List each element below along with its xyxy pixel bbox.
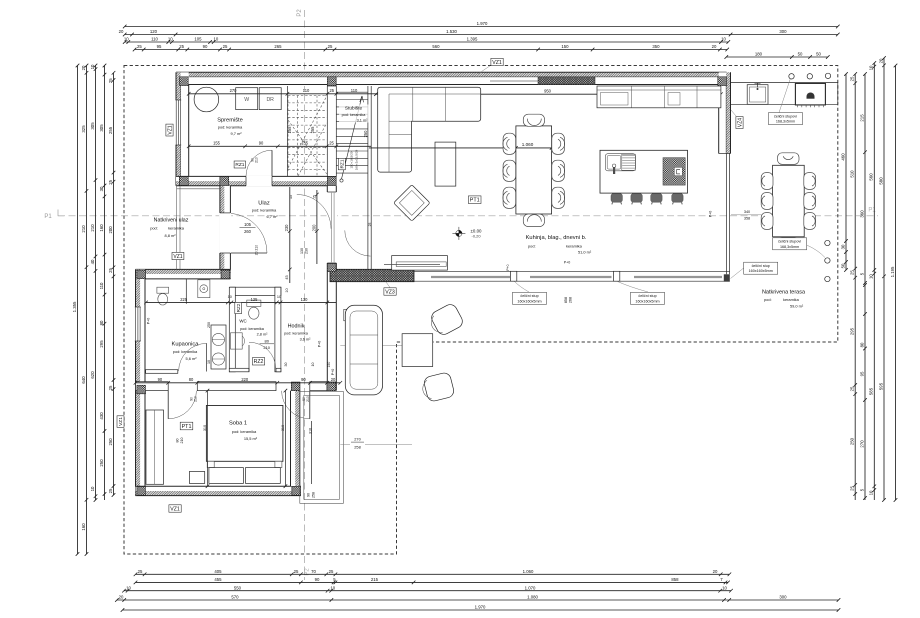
svg-text:168,3x5mm: 168,3x5mm bbox=[780, 245, 799, 249]
kitchen wall cabinets bbox=[597, 86, 721, 108]
svg-text:RZ1: RZ1 bbox=[235, 162, 244, 168]
axis P1 (horizontal centreline) bbox=[58, 215, 878, 217]
outdoor lounge chair 2 bbox=[420, 372, 455, 404]
svg-text:950: 950 bbox=[544, 89, 552, 94]
svg-text:210: 210 bbox=[255, 157, 259, 163]
svg-text:Hodnik: Hodnik bbox=[288, 324, 305, 330]
wall W5 north wall of bedroom block (y269-279) bbox=[136, 269, 231, 279]
top dimension chain 20/120/1.530/300 bbox=[123, 33, 840, 37]
right dimension chain 20/580/595 bbox=[882, 56, 886, 502]
svg-text:110: 110 bbox=[151, 37, 158, 42]
svg-text:295: 295 bbox=[99, 340, 104, 348]
sliding glass panels (grey bars) bbox=[431, 276, 722, 278]
svg-text:20: 20 bbox=[878, 58, 883, 63]
svg-text:570: 570 bbox=[231, 595, 239, 600]
svg-text:230: 230 bbox=[284, 224, 289, 232]
svg-text:455: 455 bbox=[214, 577, 222, 582]
columns overlay bbox=[179, 77, 188, 86]
roof overhang dashed outline bbox=[124, 66, 838, 555]
svg-text:620: 620 bbox=[90, 371, 95, 379]
WC door leaf and arc bbox=[248, 345, 250, 372]
column bedroom SE corner bbox=[292, 487, 301, 496]
bottom dimension chain total 1.970 bbox=[121, 608, 841, 612]
WC toilet bbox=[247, 300, 261, 306]
svg-text:200: 200 bbox=[108, 226, 113, 234]
svg-text:80: 80 bbox=[176, 439, 180, 443]
bedroom bed bbox=[206, 406, 283, 462]
svg-text:265: 265 bbox=[274, 44, 282, 49]
svg-text:10: 10 bbox=[311, 363, 315, 367]
svg-text:585: 585 bbox=[869, 387, 874, 395]
wall W9 bedroom north wall (y382-391) bbox=[136, 382, 332, 391]
svg-text:10: 10 bbox=[124, 37, 129, 42]
label RZ1 at storage door bbox=[234, 161, 246, 168]
svg-text:210: 210 bbox=[81, 225, 86, 233]
svg-text:30: 30 bbox=[99, 186, 104, 191]
bedroom door leaf and arc bbox=[167, 391, 169, 419]
svg-text:250: 250 bbox=[850, 437, 855, 445]
column junction Ulaz west wall bbox=[221, 270, 230, 279]
bathroom partition line x186.3 bbox=[185, 279, 187, 304]
svg-text:120: 120 bbox=[150, 29, 158, 34]
svg-text:1.070: 1.070 bbox=[525, 585, 536, 590]
svg-text:858: 858 bbox=[564, 297, 568, 303]
axis P2 (vertical centreline) bbox=[304, 10, 306, 580]
svg-text:51,0 m²: 51,0 m² bbox=[578, 249, 592, 254]
svg-text:Natkriveni ulaz: Natkriveni ulaz bbox=[154, 218, 189, 224]
svg-text:P+0: P+0 bbox=[331, 369, 335, 376]
terrace step slab SE of bedroom bbox=[300, 392, 344, 504]
right dimension chain 460/30/50 bbox=[844, 72, 848, 272]
svg-text:10: 10 bbox=[207, 360, 211, 364]
svg-text:keramika: keramika bbox=[168, 226, 185, 231]
svg-text:150: 150 bbox=[327, 362, 331, 368]
svg-text:340: 340 bbox=[744, 210, 750, 214]
stair left boundary line x287.4 bbox=[286, 86, 288, 176]
armchair rotated 45deg bbox=[394, 185, 430, 221]
bathroom boiler/washer bbox=[198, 280, 210, 298]
svg-text:110: 110 bbox=[303, 88, 310, 93]
svg-text:250: 250 bbox=[207, 322, 211, 328]
WC small sink bbox=[231, 333, 243, 349]
dining dim line 1.060 over table bbox=[369, 146, 553, 150]
island bar stools (dark) bbox=[611, 194, 622, 205]
dining chair top bbox=[523, 114, 544, 126]
storage dryer box DR bbox=[259, 88, 281, 110]
svg-text:405: 405 bbox=[214, 569, 222, 574]
svg-text:90: 90 bbox=[301, 377, 306, 382]
bathroom south wall stub bbox=[146, 370, 178, 374]
svg-text:pod:: pod: bbox=[528, 243, 536, 248]
svg-text:45: 45 bbox=[285, 275, 289, 279]
svg-text:95: 95 bbox=[157, 44, 162, 49]
svg-text:225: 225 bbox=[180, 297, 188, 302]
label RZ2 boxed bbox=[252, 358, 264, 366]
svg-text:10: 10 bbox=[168, 37, 173, 42]
svg-text:510: 510 bbox=[850, 170, 855, 178]
island sink with drainboard bbox=[605, 154, 635, 171]
svg-text:1.195: 1.195 bbox=[890, 266, 895, 277]
svg-text:10: 10 bbox=[228, 295, 232, 299]
stair walking line with arrow bbox=[340, 179, 343, 182]
svg-text:580: 580 bbox=[878, 177, 883, 185]
label VZ1 top boxed bbox=[491, 58, 503, 66]
svg-text:10: 10 bbox=[869, 65, 874, 70]
label VZ1 south bedroom bbox=[169, 505, 181, 513]
leader 270/258 east of bedroom wall bbox=[340, 443, 412, 445]
svg-text:čelični stup: čelični stup bbox=[520, 294, 538, 298]
svg-text:P2: P2 bbox=[297, 9, 303, 17]
svg-text:10: 10 bbox=[722, 585, 727, 590]
svg-text:105: 105 bbox=[244, 222, 252, 227]
svg-text:25: 25 bbox=[850, 386, 855, 391]
svg-text:-135: -135 bbox=[300, 141, 309, 146]
svg-text:130: 130 bbox=[301, 297, 309, 302]
svg-text:110: 110 bbox=[99, 282, 104, 289]
door opening storage south wall bbox=[246, 176, 272, 187]
terrace chairs left bbox=[761, 173, 773, 190]
svg-text:P1: P1 bbox=[868, 208, 876, 214]
svg-text:P1: P1 bbox=[44, 214, 52, 220]
left dimension chain 20/325/210/640/160 bbox=[85, 64, 89, 556]
column storage south wall east (x327) bbox=[327, 177, 336, 186]
svg-text:10: 10 bbox=[330, 585, 335, 590]
column hodnik SE bbox=[327, 382, 336, 391]
svg-text:20: 20 bbox=[81, 65, 86, 70]
bottom dimension chain 25/405/25/70/25/1.060/20 bbox=[134, 573, 732, 577]
svg-text:25: 25 bbox=[850, 270, 855, 275]
svg-text:čelični stupovi: čelični stupovi bbox=[774, 114, 797, 118]
svg-text:pod:: pod: bbox=[150, 226, 158, 231]
window in bathroom west wall bbox=[135, 307, 142, 341]
right dimension chain 25/510/25/295/25/250/25 bbox=[853, 72, 857, 500]
svg-text:150: 150 bbox=[561, 44, 569, 49]
wall W6 west wall of bedroom block (x135-145) bbox=[136, 269, 146, 495]
terrace chair bottom bbox=[778, 238, 800, 250]
wall VZ3 hatched south wall segment (x330-414) bbox=[330, 269, 414, 281]
svg-text:P+0: P+0 bbox=[709, 211, 713, 218]
covered entrance slab edge lines bbox=[177, 186, 220, 270]
svg-text:25: 25 bbox=[329, 141, 334, 146]
WC east wall (x275-281) bbox=[275, 287, 281, 372]
svg-text:čelični stup: čelični stup bbox=[638, 294, 656, 298]
label VZ1 covered entrance bbox=[172, 252, 184, 259]
svg-text:1.530: 1.530 bbox=[446, 29, 457, 34]
bathroom door leaf and arc bbox=[177, 371, 179, 374]
door swing arc Ulaz-living door A bbox=[297, 195, 331, 229]
svg-text:2,8 m²: 2,8 m² bbox=[257, 332, 268, 336]
wall east wall of living room hatched part (x719-730) bbox=[719, 72, 731, 153]
svg-text:10: 10 bbox=[126, 585, 131, 590]
svg-text:P+0: P+0 bbox=[506, 264, 510, 270]
right dimension chain total 1.195 bbox=[894, 64, 898, 502]
svg-text:P+0: P+0 bbox=[147, 318, 151, 325]
staircase upper flight solid treads bbox=[336, 92, 368, 173]
svg-text:Kuhinja, blag., dnevni b.: Kuhinja, blag., dnevni b. bbox=[526, 235, 587, 241]
svg-text:25: 25 bbox=[294, 569, 299, 574]
svg-text:90: 90 bbox=[307, 493, 311, 497]
steel column label SE corner with leader bbox=[731, 268, 744, 279]
bedroom wardrobe bbox=[146, 410, 164, 484]
column south glazing x616 bbox=[613, 271, 619, 281]
svg-text:25: 25 bbox=[328, 44, 333, 49]
svg-text:20: 20 bbox=[713, 569, 718, 574]
svg-text:300: 300 bbox=[779, 595, 787, 600]
label RZ1 rotated at stair bbox=[338, 158, 345, 170]
svg-text:pod:: pod: bbox=[764, 297, 772, 302]
svg-text:210: 210 bbox=[194, 396, 198, 402]
svg-text:pod: keramika: pod: keramika bbox=[218, 125, 243, 130]
right dimension chain 10/560/10/585/10 bbox=[873, 61, 877, 500]
bathroom toilet bbox=[157, 287, 169, 293]
TV sideboard at south glazing bbox=[392, 256, 448, 271]
column living room SE corner bbox=[724, 274, 730, 281]
storage washer box W bbox=[236, 88, 258, 110]
svg-text:20 210: 20 210 bbox=[255, 245, 259, 255]
svg-text:25: 25 bbox=[108, 268, 113, 273]
svg-text:RZ2: RZ2 bbox=[236, 303, 241, 312]
bathroom vanity with two basins bbox=[211, 325, 226, 369]
svg-text:300: 300 bbox=[779, 29, 787, 34]
top dimension chain 25/95/25/90/25/265/25/560/150/350/20 bbox=[133, 48, 729, 52]
svg-text:1.080: 1.080 bbox=[527, 595, 538, 600]
svg-text:10: 10 bbox=[869, 490, 874, 495]
svg-text:20: 20 bbox=[119, 29, 124, 34]
dining chairs left column bbox=[503, 133, 516, 154]
svg-text:110+16,5/29: 110+16,5/29 bbox=[350, 151, 354, 168]
svg-text:keramika: keramika bbox=[783, 297, 800, 302]
svg-text:858: 858 bbox=[671, 577, 679, 582]
wall W2 west wall of storage room (x176-189) bbox=[176, 72, 189, 185]
stair middle wall (x327-336) bbox=[327, 86, 336, 176]
terrace chairs right bbox=[804, 173, 816, 190]
svg-text:10: 10 bbox=[869, 274, 874, 279]
left dimension chain total 1.355 bbox=[76, 64, 80, 556]
svg-text:305: 305 bbox=[99, 124, 104, 132]
west glazing of living room (x367-371) bbox=[368, 86, 371, 269]
svg-text:-0,20: -0,20 bbox=[472, 234, 482, 239]
bathroom dim line 225/10/125/10/130 bbox=[144, 301, 336, 305]
svg-text:RZ1: RZ1 bbox=[340, 159, 346, 168]
svg-text:25: 25 bbox=[330, 88, 335, 93]
terrace chair top bbox=[778, 153, 800, 165]
kitchen dim line 950 bbox=[374, 92, 723, 96]
svg-text:230: 230 bbox=[305, 248, 309, 254]
column NE corner bbox=[718, 77, 727, 86]
svg-text:40: 40 bbox=[90, 259, 95, 264]
svg-text:pod: keramika: pod: keramika bbox=[173, 349, 198, 354]
svg-text:25: 25 bbox=[108, 78, 113, 83]
top dimension chain total 1.970 bbox=[123, 25, 840, 29]
column hodnik east wall (y264) bbox=[327, 264, 336, 272]
svg-text:250: 250 bbox=[108, 438, 113, 446]
svg-text:VZ1: VZ1 bbox=[492, 60, 502, 66]
svg-text:VZ1: VZ1 bbox=[170, 506, 180, 512]
svg-text:160x160x5mm: 160x160x5mm bbox=[517, 299, 541, 303]
right dimension chain 215/360/5/80/95/270/5 bbox=[863, 72, 867, 500]
svg-text:220: 220 bbox=[241, 377, 249, 382]
column storage south wall west bbox=[179, 177, 188, 186]
door opening hodnik to living room (sliding glazed) bbox=[327, 192, 338, 263]
svg-text:Spremište: Spremište bbox=[217, 118, 243, 124]
door leaf and swing arc storage room door bbox=[271, 150, 273, 176]
svg-text:25: 25 bbox=[368, 223, 372, 227]
bed pillows at foot bbox=[207, 461, 214, 467]
stair text Stubiste bbox=[339, 105, 369, 123]
svg-text:RZ2: RZ2 bbox=[254, 359, 264, 365]
svg-text:155: 155 bbox=[213, 141, 221, 146]
svg-text:80: 80 bbox=[99, 320, 104, 325]
svg-text:350: 350 bbox=[652, 44, 660, 49]
outdoor side table bbox=[402, 334, 433, 367]
steel column label leaders south bbox=[515, 282, 530, 293]
svg-text:3,6 m²: 3,6 m² bbox=[300, 338, 311, 342]
svg-text:215: 215 bbox=[859, 114, 864, 122]
svg-text:25: 25 bbox=[850, 76, 855, 81]
svg-text:160x160x5mm: 160x160x5mm bbox=[635, 299, 659, 303]
svg-text:čelični stup: čelični stup bbox=[752, 264, 770, 268]
svg-text:25: 25 bbox=[179, 44, 184, 49]
svg-text:95: 95 bbox=[859, 371, 864, 376]
svg-text:168,3x5mm: 168,3x5mm bbox=[776, 120, 795, 124]
vertical dim 200 at living door bbox=[315, 190, 319, 264]
column west wall at bedroom north wall bbox=[137, 385, 146, 394]
wall W3 south wall of storage / entry (y176-186) bbox=[176, 176, 336, 185]
svg-text:10: 10 bbox=[277, 295, 281, 299]
svg-text:360: 360 bbox=[859, 210, 864, 218]
svg-text:VZ3: VZ3 bbox=[385, 289, 395, 295]
column bedroom-block SW corner bbox=[137, 487, 146, 496]
outdoor kitchen counter bbox=[731, 83, 838, 105]
svg-text:±0.00: ±0.00 bbox=[471, 228, 483, 233]
svg-text:Soba 1: Soba 1 bbox=[229, 421, 247, 427]
bath-WC divider wall (x229-235) bbox=[229, 287, 235, 372]
wall W7 south wall of bedroom (y486-496) bbox=[136, 486, 301, 495]
window mullion line in north wall (glazing x490-538) bbox=[490, 80, 538, 82]
label PT1 living room bbox=[468, 196, 481, 204]
level marker +-0.00 bbox=[452, 227, 465, 240]
svg-text:125: 125 bbox=[251, 297, 259, 302]
svg-text:25: 25 bbox=[108, 179, 113, 184]
terrace dining table bbox=[773, 165, 805, 237]
svg-text:50: 50 bbox=[840, 263, 845, 268]
svg-text:10: 10 bbox=[214, 37, 219, 42]
top dimension chain 180/50/50 (outdoor kitchen) bbox=[725, 55, 830, 59]
column south glazing x513 bbox=[510, 271, 516, 281]
svg-text:560: 560 bbox=[869, 173, 874, 181]
svg-text:258: 258 bbox=[311, 492, 315, 498]
svg-text:550: 550 bbox=[234, 585, 242, 590]
svg-text:6,7 m²: 6,7 m² bbox=[266, 214, 278, 219]
column NW corner bbox=[179, 77, 188, 86]
svg-text:210: 210 bbox=[306, 396, 310, 402]
svg-text:3,1 m²: 3,1 m² bbox=[357, 119, 368, 123]
wall W10 east wall of hall/hodnik (x327-336) bbox=[327, 186, 336, 391]
svg-text:130: 130 bbox=[300, 248, 304, 254]
svg-text:pod: keramika: pod: keramika bbox=[284, 332, 309, 336]
dining table bbox=[516, 126, 552, 214]
svg-text:270: 270 bbox=[354, 437, 361, 442]
svg-text:PT1: PT1 bbox=[182, 424, 192, 430]
front door opening in Ulaz west wall bbox=[219, 213, 231, 253]
svg-text:210: 210 bbox=[263, 345, 270, 350]
island cooktop/oven block bbox=[663, 158, 685, 185]
stair dimension line 110/25/110 bbox=[286, 92, 379, 96]
svg-text:200: 200 bbox=[311, 224, 316, 232]
svg-text:čelični stupovi: čelični stupovi bbox=[778, 240, 801, 244]
terrace steel columns top (circles) bbox=[789, 74, 794, 79]
top dimension chain 10/110/10/105/10/1.395/10 bbox=[123, 40, 730, 44]
svg-text:15: 15 bbox=[312, 195, 316, 199]
steel columns label top with leader bbox=[779, 79, 790, 113]
column north wall at stair wall bbox=[327, 77, 336, 86]
svg-text:1.395: 1.395 bbox=[467, 37, 478, 42]
svg-text:59,0 m²: 59,0 m² bbox=[790, 304, 804, 309]
dining chairs right column bbox=[552, 133, 565, 154]
svg-text:10: 10 bbox=[90, 486, 95, 491]
svg-text:160+2x16,5/29: 160+2x16,5/29 bbox=[355, 149, 359, 170]
svg-text:W: W bbox=[244, 97, 249, 103]
WC labels bbox=[235, 302, 242, 313]
svg-text:250: 250 bbox=[363, 130, 368, 138]
storage dim line 155/90/135/25 bbox=[187, 145, 371, 149]
svg-text:255: 255 bbox=[108, 126, 113, 134]
svg-text:20: 20 bbox=[119, 595, 124, 600]
left dimension chain 10/305/210/40/620/10 bbox=[94, 64, 98, 502]
WC north wall (y287-295) bbox=[230, 287, 281, 295]
svg-text:268: 268 bbox=[569, 297, 573, 303]
left dimension chain 25/255/25/200/25/110/25/250/25 bbox=[112, 71, 116, 497]
svg-text:250: 250 bbox=[99, 459, 104, 467]
bed lower mattress halves bbox=[209, 468, 244, 484]
svg-text:255: 255 bbox=[287, 126, 292, 134]
svg-text:80: 80 bbox=[264, 338, 269, 343]
svg-text:80: 80 bbox=[859, 342, 864, 347]
svg-text:1.060: 1.060 bbox=[522, 142, 534, 147]
svg-text:10: 10 bbox=[721, 37, 726, 42]
outdoor lounge chair 1 bbox=[427, 302, 465, 338]
svg-text:90: 90 bbox=[315, 577, 320, 582]
svg-text:25: 25 bbox=[108, 385, 113, 390]
svg-text:210: 210 bbox=[180, 438, 184, 444]
svg-text:358: 358 bbox=[744, 216, 750, 220]
svg-text:P+0: P+0 bbox=[564, 261, 571, 265]
corner sofa bbox=[378, 87, 481, 172]
svg-text:VZ1: VZ1 bbox=[118, 417, 124, 426]
svg-text:keramika: keramika bbox=[566, 243, 583, 248]
svg-text:1.355: 1.355 bbox=[72, 301, 77, 312]
svg-text:90: 90 bbox=[259, 141, 264, 146]
svg-text:DR: DR bbox=[266, 97, 274, 103]
svg-text:25: 25 bbox=[108, 488, 113, 493]
svg-text:pod: keramika: pod: keramika bbox=[232, 429, 257, 434]
svg-text:70: 70 bbox=[311, 569, 316, 574]
svg-text:pod: keramika: pod: keramika bbox=[342, 113, 367, 117]
bottom dimension chain 20/570/1.080/300 bbox=[115, 598, 840, 602]
svg-text:90: 90 bbox=[158, 377, 163, 382]
svg-text:255: 255 bbox=[310, 126, 315, 134]
svg-text:50: 50 bbox=[816, 52, 821, 57]
svg-text:Stubište: Stubište bbox=[345, 106, 363, 112]
svg-text:8,8 m²: 8,8 m² bbox=[164, 233, 176, 238]
svg-text:10: 10 bbox=[90, 64, 95, 69]
column storage south wall mid (x220) bbox=[220, 177, 229, 186]
left dimension chain 305/30/160/110/80/295/430/250 bbox=[103, 64, 107, 500]
svg-text:210: 210 bbox=[90, 224, 95, 232]
outdoor grill unit bbox=[795, 83, 825, 105]
svg-text:1.970: 1.970 bbox=[475, 605, 486, 610]
wall W1 north wall of house (y72-86) bbox=[176, 72, 727, 86]
